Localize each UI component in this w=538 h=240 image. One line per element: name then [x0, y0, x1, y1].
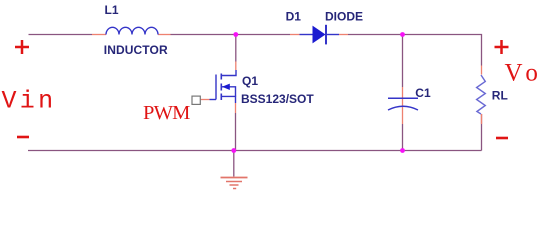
- svg-text:INDUCTOR: INDUCTOR: [104, 43, 168, 57]
- wire C1 upper: [402, 35, 404, 88]
- pin Q1 source: [235, 103, 237, 113]
- svg-text:PWM: PWM: [143, 102, 190, 124]
- wire ground stem: [233, 151, 235, 177]
- pin square (PWM input connector): [192, 96, 200, 104]
- wire right-lower (RL to bottom rail): [481, 114, 483, 151]
- node junction bottom at ground: [231, 148, 236, 153]
- node junction top at C1: [400, 32, 405, 37]
- ground: [221, 178, 248, 189]
- pin D1 anode: [290, 34, 300, 36]
- pin L1 right: [158, 34, 171, 36]
- pin L1 left: [92, 34, 106, 36]
- pin RL bottom: [481, 114, 483, 124]
- svg-text:Q1: Q1: [242, 74, 258, 88]
- wire Q1 source to bottom rail: [235, 113, 237, 151]
- svg-text:BSS123/SOT: BSS123/SOT: [241, 92, 314, 106]
- node junction bottom at C1: [400, 148, 405, 153]
- wire top-right (D1 to output corner): [348, 35, 482, 66]
- wire C1 lower: [402, 124, 404, 151]
- inductor L1: [106, 27, 158, 34]
- plus sign Vin: [15, 40, 29, 54]
- svg-text:D1: D1: [286, 10, 302, 24]
- pin Q1 gate: [201, 99, 210, 101]
- svg-text:C1: C1: [415, 86, 431, 100]
- node junction top at Q1 drain: [233, 32, 238, 37]
- svg-text:L1: L1: [105, 3, 119, 17]
- pin C1 bottom: [402, 106, 404, 124]
- pin D1 cathode: [339, 34, 348, 36]
- minus sign Vin: [17, 136, 29, 139]
- svg-text:Vo: Vo: [505, 60, 538, 87]
- pin C1 top: [402, 87, 404, 106]
- wire Q1 drain to top node: [235, 35, 237, 62]
- pin RL top: [481, 66, 483, 75]
- diode D1: [300, 25, 340, 45]
- wire bottom rail: [28, 150, 482, 152]
- resistor RL: [477, 75, 486, 114]
- minus sign Vo: [496, 137, 508, 140]
- plus sign Vo: [495, 40, 509, 54]
- pin Q1 drain: [235, 62, 237, 71]
- capacitor C1: [388, 98, 418, 110]
- svg-text:RL: RL: [492, 89, 508, 103]
- wire top-left (Vin+ to L1): [29, 34, 93, 36]
- svg-text:Vin: Vin: [2, 87, 57, 116]
- transistor Q1 (NMOS): [210, 70, 237, 103]
- wire top-mid (L1 to D1 through node): [171, 34, 291, 36]
- svg-text:DIODE: DIODE: [325, 10, 363, 24]
